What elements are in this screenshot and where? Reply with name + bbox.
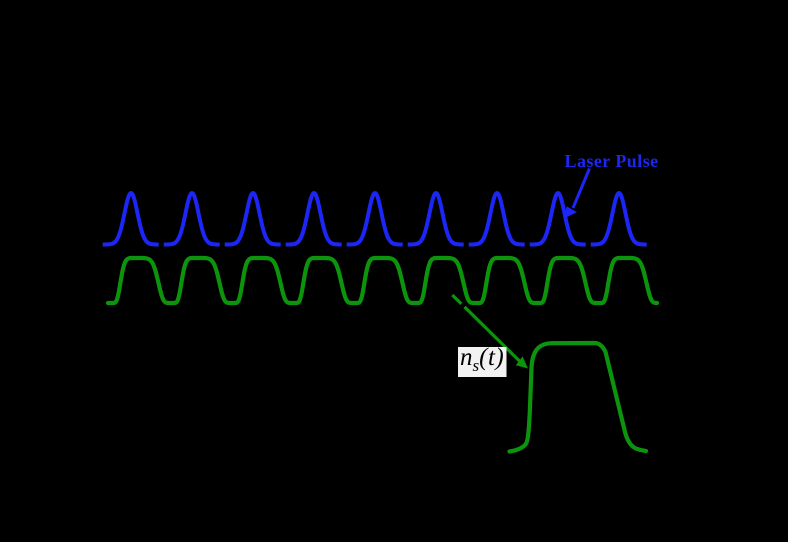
- green arrow line (n_s(t) pointer): [452, 295, 461, 304]
- n_s(t) text: [460, 344, 504, 376]
- blue pulse 9: [591, 193, 647, 244]
- blue pulse 1: [103, 193, 159, 244]
- magnified flat-top pulse: [510, 343, 647, 452]
- blue pulse 8: [530, 193, 586, 244]
- blue pulse 4: [286, 193, 342, 244]
- green flat-top pulse train n_s(t): [108, 258, 657, 303]
- green arrow head: [516, 357, 528, 369]
- blue pulse 5: [347, 193, 403, 244]
- Laser Pulse text label: [565, 151, 659, 172]
- laser pulse train (blue gaussians): [103, 193, 647, 244]
- blue pulse 6: [408, 193, 464, 244]
- green arrow line part 2: [465, 307, 522, 363]
- blue arrow head: [564, 206, 577, 218]
- blue arrow line (Laser Pulse pointer): [573, 169, 590, 209]
- blue pulse 7: [469, 193, 525, 244]
- blue pulse 3: [225, 193, 281, 244]
- n_s(t) label box: [458, 347, 507, 377]
- blue pulse 2: [164, 193, 220, 244]
